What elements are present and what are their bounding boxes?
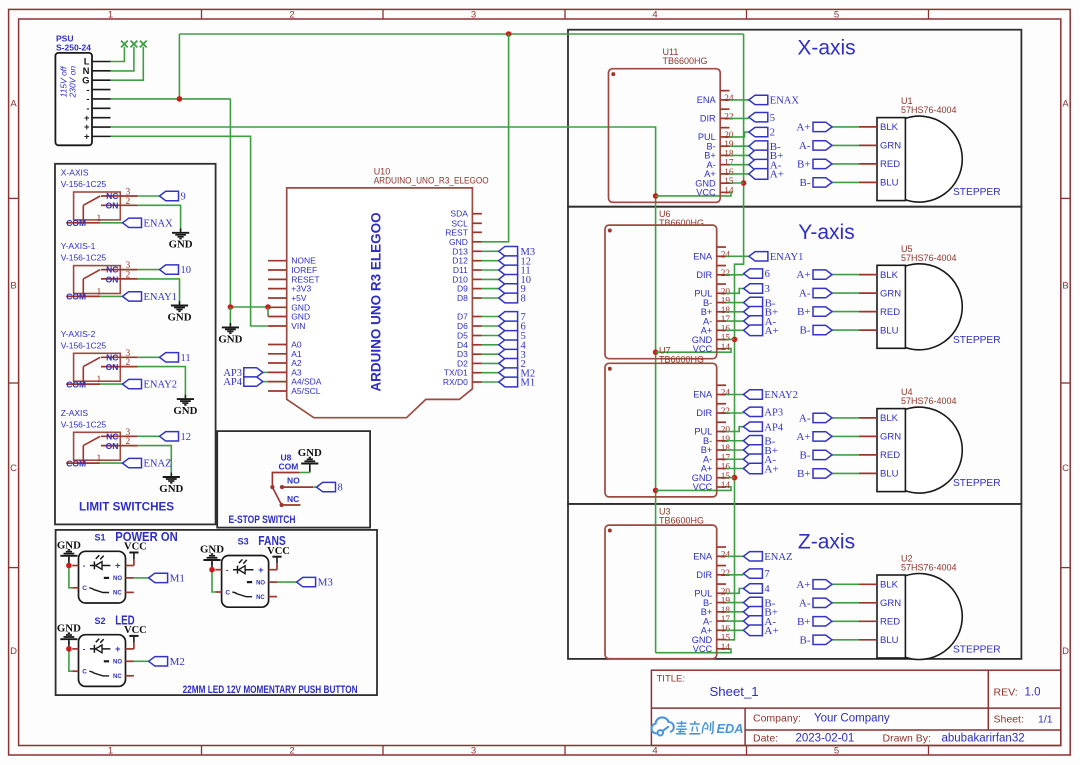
net flag 7 (499, 312, 526, 323)
net flag A- (743, 616, 776, 628)
wire (482, 288, 499, 290)
stepper motor U4 57HS76-4004 (859, 387, 1001, 493)
svg-text:TB6600HG: TB6600HG (659, 516, 704, 526)
net flag AP4 (743, 422, 783, 433)
svg-text:Y-AXIS-2: Y-AXIS-2 (61, 329, 96, 339)
power VCC (124, 625, 147, 642)
svg-text:ENAX: ENAX (144, 218, 174, 229)
svg-text:EDA: EDA (717, 721, 744, 736)
svg-text:V-156-1C25: V-156-1C25 (61, 340, 107, 350)
svg-text:VCC: VCC (693, 644, 713, 654)
svg-text:X-axis: X-axis (797, 37, 855, 60)
svg-text:2: 2 (126, 437, 131, 447)
svg-text:ENA: ENA (697, 95, 717, 105)
net flag B+ (743, 445, 778, 457)
svg-text:GND: GND (218, 333, 242, 345)
wire (69, 649, 72, 671)
net flag B- (800, 634, 833, 646)
wire (482, 269, 499, 271)
net flag A- (799, 597, 832, 609)
svg-text:S3: S3 (238, 537, 249, 547)
net flag M2 (149, 656, 185, 668)
svg-text:STEPPER: STEPPER (953, 335, 1001, 346)
net flag B+ (744, 307, 779, 319)
svg-text:GND: GND (449, 237, 468, 247)
wire (730, 117, 749, 119)
stepper driver U7 TB6600HG (605, 346, 730, 497)
svg-text:STEPPER: STEPPER (953, 478, 1001, 489)
svg-text:D7: D7 (457, 312, 468, 322)
svg-text:A-: A- (799, 413, 811, 425)
wire (482, 372, 499, 374)
svg-text:A+: A+ (765, 325, 779, 337)
no-connect flag (140, 41, 147, 48)
svg-text:AP4: AP4 (764, 422, 783, 433)
net flag 3 (499, 349, 526, 360)
net flag A+ (796, 431, 832, 443)
wire (482, 344, 499, 346)
svg-text:C: C (10, 463, 17, 474)
net flag B+ (797, 616, 832, 628)
junction (265, 304, 271, 310)
svg-text:22MM LED 12V MOMENTARY PUSH BU: 22MM LED 12V MOMENTARY PUSH BUTTON (183, 684, 358, 696)
svg-text:BLK: BLK (880, 580, 899, 591)
svg-text:57HS76-4004: 57HS76-4004 (901, 253, 957, 263)
stepper driver U11 TB6600HG (609, 47, 734, 202)
svg-text:Z-axis: Z-axis (798, 530, 855, 553)
wire (730, 132, 749, 137)
junction (66, 646, 72, 652)
net flag B- (744, 297, 776, 309)
net flag 4 (499, 340, 527, 351)
svg-text:B: B (10, 281, 16, 292)
net flag ENAZ (743, 552, 792, 563)
svg-text:NC: NC (287, 494, 299, 504)
push button S3 FANS (215, 534, 285, 607)
wire (726, 412, 743, 414)
wire L to no-connect (111, 47, 125, 62)
junction (209, 567, 215, 573)
svg-text:Drawn By:: Drawn By: (883, 733, 931, 745)
net flag 6 (499, 321, 526, 332)
net flag A+ (743, 463, 778, 475)
net flag 10 (499, 275, 531, 286)
ground (57, 539, 81, 565)
svg-text:+: + (115, 644, 121, 655)
svg-text:SDA: SDA (450, 209, 468, 219)
group box limit switches (55, 164, 216, 525)
svg-text:BLK: BLK (880, 122, 899, 133)
stepper motor U2 57HS76-4004 (859, 554, 1001, 660)
svg-text:ENA: ENA (693, 390, 713, 400)
wire N to no-connect (111, 47, 134, 71)
svg-text:NC: NC (256, 595, 265, 601)
svg-text:COM: COM (279, 462, 299, 472)
wire GND riser to top rail (178, 34, 180, 99)
ground (168, 301, 192, 323)
wire (134, 577, 149, 579)
svg-text:VCC: VCC (124, 542, 147, 553)
net flag B+ (797, 468, 832, 480)
svg-text:7: 7 (764, 569, 769, 580)
svg-text:NC: NC (106, 191, 118, 201)
svg-text:B+: B+ (797, 306, 811, 318)
wire (277, 581, 297, 583)
net flag A- (799, 413, 832, 425)
wire (832, 454, 859, 456)
wire (482, 325, 499, 327)
wire U11 VCC pin (656, 192, 731, 196)
svg-text:24: 24 (721, 550, 731, 560)
svg-text:8: 8 (338, 483, 343, 494)
svg-text:B+: B+ (797, 159, 811, 171)
stepper driver U3 TB6600HG (605, 507, 730, 659)
svg-text:A+: A+ (770, 169, 784, 181)
wire GND drop to arduino (482, 34, 509, 242)
wire (138, 279, 180, 304)
group box e-stop (217, 431, 370, 527)
wire (832, 417, 859, 419)
svg-text:ENAZ: ENAZ (144, 459, 172, 470)
svg-text:-: - (226, 565, 229, 574)
wire (832, 639, 859, 641)
svg-text:REV:: REV: (994, 687, 1018, 699)
wire (726, 629, 743, 631)
svg-text:4: 4 (764, 584, 770, 595)
net flag M1 (149, 573, 185, 585)
arduino U10 ARDUINO_UNO_R3_ELEGOO (268, 166, 489, 417)
wire (726, 555, 743, 557)
svg-text:ON: ON (106, 274, 119, 284)
svg-text:14: 14 (721, 343, 731, 353)
svg-text:NO: NO (287, 476, 300, 486)
svg-text:B+: B+ (797, 468, 811, 480)
wire (832, 292, 859, 294)
svg-text:NC: NC (113, 591, 122, 597)
svg-text:2023-02-01: 2023-02-01 (796, 733, 855, 745)
svg-text:8: 8 (521, 294, 526, 305)
wire GND from PSU - pin (111, 98, 231, 100)
svg-text:22: 22 (721, 569, 731, 579)
svg-text:X-AXIS: X-AXIS (61, 168, 89, 178)
junction (653, 193, 659, 199)
junction (506, 31, 512, 37)
svg-text:B-: B- (800, 634, 811, 646)
wire (832, 181, 859, 183)
net flag B- (743, 597, 775, 609)
svg-text:B-: B- (800, 325, 811, 337)
label 22MM LED 12V MOMENTARY PUSH BUTTON (183, 684, 358, 696)
wire (726, 302, 744, 304)
wire (313, 486, 316, 488)
wire (138, 205, 181, 231)
net flag ENAX (749, 95, 800, 106)
ground (159, 473, 183, 495)
svg-text:12: 12 (181, 432, 192, 443)
svg-text:14: 14 (721, 481, 731, 491)
svg-text:10: 10 (181, 265, 192, 276)
svg-text:ARDUINO UNO R3 ELEGOO: ARDUINO UNO R3 ELEGOO (369, 212, 384, 391)
wire VCC from PSU + (111, 127, 656, 653)
stepper motor U1 57HS76-4004 (859, 96, 1001, 202)
svg-text:A5/SCL: A5/SCL (291, 386, 321, 396)
svg-text:2: 2 (289, 10, 294, 21)
net flag M2 (499, 368, 535, 379)
limit switch Y-AXIS-2 V-156-1C25 (61, 329, 138, 390)
power VCC (124, 542, 147, 559)
net flag 2 (749, 127, 775, 138)
svg-text:C: C (82, 585, 87, 592)
net flag A- (744, 316, 777, 328)
net flag 9 (499, 284, 526, 295)
net flag 8 (317, 482, 343, 493)
svg-text:NO: NO (113, 576, 122, 582)
svg-text:C: C (225, 589, 230, 596)
svg-text:COM: COM (66, 218, 86, 228)
net flag A+ (744, 325, 779, 337)
net flag B- (800, 325, 833, 337)
svg-text:M2: M2 (170, 656, 185, 668)
net flag B+ (797, 159, 832, 171)
net flag B- (800, 450, 833, 462)
svg-text:+: + (84, 132, 90, 143)
svg-text:Sheet:: Sheet: (994, 714, 1024, 726)
svg-text:RED: RED (880, 617, 900, 628)
svg-text:A+: A+ (796, 269, 810, 281)
svg-text:GND: GND (57, 539, 81, 551)
svg-text:RED: RED (880, 450, 900, 461)
wire (482, 297, 499, 299)
ground (57, 623, 81, 649)
net flag 6 (744, 269, 770, 280)
label X-axis (797, 37, 855, 60)
svg-text:A+: A+ (796, 122, 810, 134)
net flag 8 (499, 293, 526, 304)
label E-STOP SWITCH (229, 514, 296, 526)
svg-text:57HS76-4004: 57HS76-4004 (901, 105, 957, 115)
svg-text:D: D (10, 646, 17, 657)
svg-text:DIR: DIR (696, 570, 712, 580)
wire (726, 289, 744, 294)
svg-text:4: 4 (652, 746, 657, 757)
wire (726, 255, 749, 257)
net flag 11 (160, 353, 191, 364)
svg-text:5: 5 (834, 746, 839, 757)
wire (726, 440, 743, 442)
wire (726, 394, 743, 396)
svg-text:COM: COM (66, 458, 86, 468)
svg-text:B: B (1062, 281, 1068, 292)
svg-text:ENAY2: ENAY2 (764, 390, 797, 401)
svg-text:22: 22 (721, 269, 731, 279)
svg-text:B-: B- (800, 450, 811, 462)
ground (169, 228, 193, 250)
net flag M3 (297, 577, 334, 589)
svg-text:A: A (10, 99, 17, 110)
wire (832, 274, 859, 276)
svg-text:V-156-1C25: V-156-1C25 (61, 253, 107, 263)
power VCC (267, 546, 290, 563)
wire U6 GND pin (726, 338, 735, 340)
wire (726, 611, 743, 613)
svg-text:DIR: DIR (696, 270, 712, 280)
junction (228, 304, 234, 310)
junction (177, 96, 183, 102)
net flag ENAY2 (123, 379, 177, 390)
net flag ENAY1 (749, 252, 803, 263)
svg-text:230V on: 230V on (67, 66, 77, 99)
wire (482, 335, 499, 337)
no-connect flag (131, 41, 138, 48)
svg-text:BLU: BLU (880, 469, 899, 480)
svg-text:TB6600HG: TB6600HG (663, 56, 708, 66)
svg-text:2: 2 (770, 128, 775, 139)
svg-text:GND: GND (173, 405, 197, 417)
wire (726, 574, 743, 576)
svg-text:COM: COM (66, 292, 86, 302)
net flag A- (799, 140, 832, 152)
svg-text:GND: GND (169, 239, 193, 251)
wire (482, 260, 499, 262)
svg-text:GRN: GRN (880, 598, 901, 609)
wire (730, 154, 749, 156)
svg-text:RED: RED (880, 159, 900, 170)
svg-text:RX/D0: RX/D0 (443, 377, 468, 387)
svg-text:22: 22 (721, 407, 731, 417)
svg-text:VCC: VCC (696, 188, 716, 198)
svg-text:D8: D8 (457, 293, 468, 303)
svg-text:3: 3 (765, 284, 770, 295)
net flag AP4 (223, 377, 262, 388)
svg-text:4: 4 (652, 10, 657, 21)
svg-text:E-STOP SWITCH: E-STOP SWITCH (229, 514, 296, 526)
wire (726, 329, 744, 331)
svg-text:COM: COM (66, 379, 86, 389)
wire (730, 145, 749, 147)
svg-text:ENAY1: ENAY1 (144, 292, 177, 303)
svg-text:24: 24 (724, 94, 734, 104)
svg-text:14: 14 (721, 643, 731, 653)
no-connect flag (121, 41, 128, 48)
svg-text:BLK: BLK (880, 413, 899, 424)
svg-text:BLU: BLU (880, 325, 899, 336)
svg-text:NC: NC (106, 352, 118, 362)
svg-text:ENA: ENA (693, 252, 713, 262)
wire (482, 250, 499, 252)
svg-text:ENAY2: ENAY2 (144, 380, 177, 391)
net flag B- (743, 435, 775, 447)
net flag ENAY2 (743, 390, 797, 401)
svg-text:11: 11 (181, 353, 191, 364)
svg-text:3: 3 (471, 746, 476, 757)
net flag A+ (796, 122, 832, 134)
junction (741, 180, 747, 186)
svg-text:GND: GND (168, 311, 192, 323)
svg-text:Y-AXIS-1: Y-AXIS-1 (61, 241, 96, 251)
wire (832, 620, 859, 622)
wire (138, 446, 172, 476)
wire (482, 316, 499, 318)
svg-text:22: 22 (724, 112, 734, 122)
wire U7 GND pin (726, 477, 735, 479)
label Z-axis (798, 530, 855, 553)
wire (726, 589, 743, 594)
svg-text:M1: M1 (521, 378, 536, 389)
wire to GND symbol (229, 307, 231, 326)
svg-text:Z-AXIS: Z-AXIS (61, 408, 89, 418)
wire (138, 195, 160, 197)
svg-text:VCC: VCC (267, 546, 290, 557)
svg-text:GND: GND (159, 483, 183, 495)
group box Z-axis section (568, 504, 1021, 659)
net flag ENAZ (123, 458, 172, 469)
ground (218, 323, 242, 345)
net flag B- (749, 141, 781, 153)
net flag A+ (796, 579, 832, 591)
wire (138, 367, 186, 398)
svg-text:VCC: VCC (693, 482, 713, 492)
wire (730, 164, 749, 166)
svg-text:AP3: AP3 (764, 407, 783, 418)
svg-text:57HS76-4004: 57HS76-4004 (901, 563, 957, 573)
label Y-axis (798, 221, 854, 244)
net flag A- (799, 288, 832, 300)
svg-text:AP4: AP4 (223, 377, 242, 388)
svg-text:VCC: VCC (124, 625, 147, 636)
net flag B+ (743, 607, 778, 619)
svg-text:STEPPER: STEPPER (953, 645, 1001, 656)
wire (832, 435, 859, 437)
svg-text:D6: D6 (457, 321, 468, 331)
wire U11 GND pin (726, 182, 744, 184)
svg-text:S-250-24: S-250-24 (56, 43, 91, 53)
svg-text:NC: NC (106, 431, 118, 441)
net flag AP3 (223, 368, 262, 379)
wire (726, 620, 743, 622)
net flag M1 (499, 377, 535, 388)
svg-text:+: + (258, 565, 264, 576)
wire (726, 602, 743, 604)
limit switch X-AXIS V-156-1C25 (61, 168, 138, 229)
svg-text:9: 9 (181, 192, 186, 203)
wire (832, 144, 859, 146)
wire (482, 278, 499, 280)
wire (832, 126, 859, 128)
svg-text:LIMIT SWITCHES: LIMIT SWITCHES (79, 500, 174, 514)
wire (69, 566, 72, 588)
svg-text:A-: A- (799, 597, 811, 609)
wire (726, 458, 743, 460)
net flag AP3 (743, 407, 783, 418)
wire VIN from PSU + (111, 136, 269, 326)
svg-text:1: 1 (108, 10, 113, 21)
junction (66, 563, 72, 569)
svg-text:ENA: ENA (693, 552, 713, 562)
svg-text:B-: B- (800, 177, 811, 189)
svg-text:-: - (83, 561, 86, 570)
junction (732, 475, 738, 481)
svg-text:A+: A+ (796, 579, 810, 591)
svg-text:57HS76-4004: 57HS76-4004 (901, 396, 957, 406)
wire arduino GND2 link (267, 307, 269, 317)
svg-text:ENAZ: ENAZ (764, 552, 792, 563)
net flag ENAX (123, 218, 174, 229)
svg-text:BLU: BLU (880, 178, 899, 189)
net flag B+ (797, 306, 832, 318)
junction (653, 349, 659, 355)
wire (726, 274, 744, 276)
svg-text:Date:: Date: (753, 733, 778, 745)
